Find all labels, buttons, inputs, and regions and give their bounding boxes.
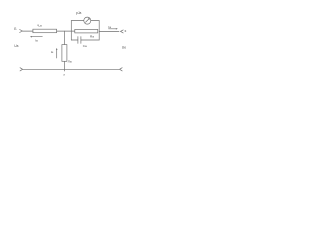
wire bottom rail — [23, 68, 120, 70]
wire — [22, 30, 33, 32]
wire loop right vertical — [98, 21, 100, 40]
source U1 (circle with arrow) — [84, 17, 91, 24]
svg-text:Ia: Ia — [35, 39, 38, 43]
svg-text:Лa: Лa — [68, 60, 72, 64]
resistor R2 (inner) — [75, 29, 98, 33]
current arrow Ia (left, pointing left) — [32, 36, 43, 38]
current arrow Ie (excitation, pointing up) — [56, 50, 58, 59]
current arrow Ia (right, pointing right) — [109, 28, 117, 30]
wire output — [99, 30, 119, 32]
wire (branch down to excitation) — [63, 31, 65, 44]
svg-text:pJa: pJa — [76, 11, 81, 15]
wire bottom edge right — [81, 39, 99, 41]
node loop left vertical wire — [70, 21, 72, 40]
svg-text:Ua: Ua — [14, 44, 18, 48]
resistor R1 (Ra La armature) — [33, 29, 57, 33]
terminal chevron right (output) — [121, 30, 124, 33]
wire bottom edge left — [71, 39, 78, 41]
svg-text:Ie: Ie — [51, 50, 54, 54]
wire — [57, 30, 75, 32]
svg-text:²La: ²La — [37, 23, 42, 27]
resistor R3 (excitation winding, vertical) — [62, 45, 67, 62]
terminal chevron left (armature input) — [20, 30, 23, 33]
svg-text:Ia: Ia — [108, 25, 111, 29]
wire to rail — [63, 61, 65, 71]
svg-text:Ra: Ra — [90, 35, 94, 39]
svg-text:Ca: Ca — [83, 44, 87, 48]
wire top edge right — [91, 20, 99, 22]
svg-text:Ue: Ue — [122, 46, 126, 50]
svg-text:Б: Б — [14, 27, 17, 31]
svg-text:э: э — [63, 72, 65, 76]
svg-text:κ: κ — [125, 29, 127, 33]
terminal chevron rail right — [120, 68, 123, 71]
terminal chevron rail left — [20, 68, 23, 71]
wire top edge left — [71, 20, 84, 22]
capacitor C1 — [77, 37, 79, 44]
